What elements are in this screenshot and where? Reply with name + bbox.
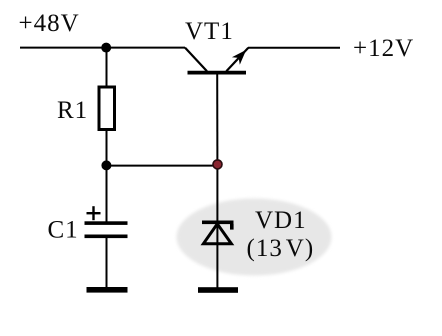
wire +12V rail (top-right horizontal) xyxy=(248,47,340,49)
svg-text:V): V) xyxy=(286,235,314,262)
transistor VT1 : emitter diagonal xyxy=(226,48,248,72)
zener diode VD1 : cathode bar xyxy=(202,221,234,225)
transistor VT1 : collector diagonal from +48V rail xyxy=(185,48,207,72)
ground under VD1 xyxy=(198,287,238,293)
svg-text:C1: C1 xyxy=(48,216,79,243)
svg-text:VT1: VT1 xyxy=(185,18,234,45)
svg-text:(13: (13 xyxy=(247,235,283,262)
highlight ellipse around VD1 xyxy=(177,199,332,276)
transistor VT1 : emitter arrowhead xyxy=(232,50,246,65)
wire VT1 base down to zener node xyxy=(216,73,218,164)
wire +48V rail (top-left horizontal) xyxy=(20,47,185,49)
wire from middle junction down to C1 top plate xyxy=(106,165,108,222)
svg-text:+12V: +12V xyxy=(353,35,414,62)
wire from R1 bottom to middle junction xyxy=(106,130,108,165)
node middle junction (black dot) xyxy=(101,160,111,170)
svg-text:R1: R1 xyxy=(57,97,88,124)
ground under C1 xyxy=(87,287,128,293)
svg-text:VD1: VD1 xyxy=(255,207,307,234)
wire zener node down through VD1 to ground xyxy=(216,164,218,288)
capacitor C1 : plus polarity mark xyxy=(87,206,101,220)
svg-text:+48V: +48V xyxy=(19,10,80,37)
node top junction (black dot on +48V rail) xyxy=(101,43,111,53)
wire from top junction to R1 top xyxy=(106,48,108,86)
wire from C1 bottom plate to ground xyxy=(106,237,108,288)
capacitor C1 : bottom plate xyxy=(85,235,128,239)
node zener/base junction (dark red dot) xyxy=(213,160,222,169)
zener diode VD1 : bent tip (right, down) xyxy=(230,224,234,230)
zener diode VD1 : anode triangle xyxy=(203,224,231,244)
wire middle horizontal (junction to zener node) xyxy=(107,165,218,167)
capacitor C1 : top plate xyxy=(85,221,128,225)
transistor VT1 : base bar xyxy=(188,71,247,75)
resistor R1 (rectangle body) xyxy=(99,87,115,130)
